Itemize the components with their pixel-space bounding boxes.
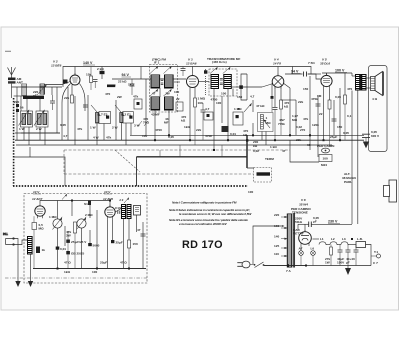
- wire: 140V B+ rail: [72, 67, 311, 75]
- IF transformer T1 box: [150, 58, 178, 113]
- labels mid front: [105, 80, 134, 100]
- svg-text:1 MΩ: 1 MΩ: [198, 97, 206, 101]
- rectifier tube V8: [299, 230, 312, 251]
- svg-text:35 DL6: 35 DL6: [320, 62, 330, 66]
- svg-text:0,05: 0,05: [60, 123, 66, 127]
- resistor R30 bleeder: [330, 245, 333, 266]
- label mains cap: [295, 216, 319, 224]
- svg-text:1M: 1M: [317, 94, 322, 98]
- label 94 V right: [291, 70, 301, 74]
- wire V2 connections: [44, 67, 88, 146]
- svg-text:L2: L2: [331, 237, 335, 241]
- antenna: [8, 67, 16, 78]
- svg-text:14 V: 14 V: [33, 190, 40, 194]
- svg-text:μF: μF: [346, 261, 350, 265]
- capacitor C2: [83, 105, 88, 107]
- capacitor C4: [130, 79, 135, 95]
- svg-text:1 MΩ: 1 MΩ: [49, 215, 57, 219]
- svg-text:47 Ω: 47 Ω: [120, 261, 127, 265]
- svg-text:600 V: 600 V: [371, 134, 380, 138]
- svg-text:47: 47: [137, 228, 141, 232]
- heater wiring marks: [138, 121, 222, 157]
- wire ferrite drops: [27, 99, 40, 111]
- svg-text:Nota I Commutatore raffigurat: Nota I Commutatore raffigurato in posizi…: [172, 201, 237, 205]
- svg-text:JW: JW: [165, 92, 170, 96]
- tube V4 det/AF: [272, 58, 284, 90]
- wire: bus line upper: [130, 134, 364, 136]
- svg-text:25μF: 25μF: [100, 261, 107, 265]
- antenna coupling block: [8, 77, 23, 85]
- svg-text:100: 100: [142, 134, 147, 138]
- svg-text:MΩ: MΩ: [266, 121, 272, 125]
- wire rectifier to filter: [313, 238, 320, 240]
- wire right risers: [310, 135, 318, 157]
- label speaker leads: [342, 172, 357, 184]
- svg-text:25 μF/25 V: 25 μF/25 V: [71, 240, 87, 244]
- labels chokes: [320, 237, 378, 265]
- capacitor C16 line end: [362, 134, 370, 141]
- capacitor C6 rail: [181, 67, 186, 77]
- oscillator coil box 1: [91, 105, 111, 124]
- svg-text:1 kΩ: 1 kΩ: [270, 145, 277, 149]
- notes text: [169, 201, 252, 227]
- clutter right section: [253, 94, 349, 153]
- svg-text:47k: 47k: [106, 136, 111, 140]
- dial lamp terminal 2: [311, 247, 316, 266]
- antenna coil L2: [37, 84, 46, 95]
- label 230 V: [328, 220, 340, 224]
- capacitor C30: [309, 222, 312, 228]
- T1 winding d: [164, 89, 174, 110]
- speaker LS1: [366, 72, 384, 102]
- svg-text:3 W: 3 W: [134, 124, 140, 128]
- svg-text:160: 160: [274, 224, 279, 228]
- svg-text:1: 1: [266, 116, 268, 120]
- svg-text:L1: L1: [320, 237, 324, 241]
- stray mark top-left: [5, 50, 11, 52]
- voltage selector taps: [281, 216, 287, 257]
- svg-text:L6: L6: [311, 247, 315, 251]
- svg-text:43 MF: 43 MF: [151, 113, 160, 117]
- wire: left corner link: [14, 157, 65, 186]
- svg-text:22: 22: [319, 112, 323, 116]
- svg-text:MΩ: MΩ: [292, 118, 298, 122]
- lamp ballast dashed box: [247, 168, 272, 183]
- wire: main AVC bus: [15, 139, 364, 141]
- phono input jack: [3, 232, 14, 245]
- filter capacitor Ca: [338, 245, 343, 266]
- svg-text:140 V: 140 V: [83, 61, 93, 65]
- pilot lamp assembly: [290, 140, 335, 167]
- svg-text:2 W: 2 W: [112, 126, 118, 130]
- resistor R11: [271, 96, 274, 112]
- svg-text:470: 470: [347, 87, 352, 91]
- filter capacitor Cc: [354, 245, 359, 266]
- phono out transformer: [115, 205, 131, 219]
- svg-text:T.1: T.1: [374, 250, 378, 254]
- svg-text:140: 140: [274, 235, 279, 239]
- svg-text:22k: 22k: [64, 96, 69, 100]
- capacitor C5 grid blob: [63, 80, 68, 84]
- svg-text:PER CAMBI: PER CAMBI: [317, 144, 335, 148]
- wire T2 drops: [214, 87, 241, 150]
- svg-text:A7: A7: [299, 247, 303, 251]
- svg-text:100: 100: [198, 101, 203, 105]
- resistor R1 grid: [64, 95, 74, 103]
- speaker cabinet box: [369, 66, 388, 152]
- resistor R7 cathode: [194, 97, 206, 146]
- svg-text:94 V: 94 V: [122, 73, 130, 77]
- svg-text:2W: 2W: [117, 95, 122, 99]
- svg-text:150V: 150V: [337, 261, 345, 265]
- svg-text:22 kΩ: 22 kΩ: [118, 80, 127, 84]
- ferrite rod: [23, 96, 44, 99]
- svg-text:12 BE6: 12 BE6: [51, 64, 62, 68]
- oscillator coil box 2: [115, 105, 133, 123]
- label V8: [299, 198, 308, 207]
- switch S2 mains: [254, 262, 265, 268]
- switch S1 mark: [62, 194, 91, 206]
- IF transformer T2 box: [206, 57, 241, 96]
- svg-text:5000: 5000: [93, 244, 100, 248]
- volume pot P2: [49, 215, 62, 230]
- svg-text:770k: 770k: [278, 122, 285, 126]
- svg-text:4 Ω: 4 Ω: [372, 97, 378, 101]
- T2 winding b: [223, 67, 232, 88]
- svg-text:1 MΩ: 1 MΩ: [234, 107, 242, 111]
- capacitor C24: [137, 228, 146, 236]
- resistor R10: [280, 100, 290, 135]
- svg-text:7 A: 7 A: [286, 269, 291, 273]
- antenna coil L1: [22, 84, 27, 96]
- svg-text:47k: 47k: [303, 117, 308, 121]
- svg-text:25μF: 25μF: [116, 241, 123, 245]
- bus power ground: [264, 265, 371, 267]
- value labels front end: [19, 90, 42, 131]
- volume pot P1: [258, 113, 274, 132]
- switch J2 mark and capacitor C10 phono: [115, 198, 129, 214]
- component clutter row 1: [133, 95, 243, 140]
- capacitor C21: [66, 231, 87, 269]
- ground right: [363, 142, 369, 149]
- T2 trimmer caps: [220, 79, 223, 85]
- labels filter caps: [325, 257, 355, 265]
- svg-text:110: 110: [274, 252, 279, 256]
- svg-text:2 kΩ: 2 kΩ: [97, 67, 104, 71]
- svg-text:14 F8: 14 F8: [273, 62, 281, 66]
- label 100 V: [335, 69, 347, 73]
- T1 winding a: [150, 66, 160, 88]
- svg-text:e la massa col voltmetro 20000: e la massa col voltmetro 20000 Ω/V: [179, 222, 228, 226]
- chassis ground hatched line horizontal: [13, 185, 248, 187]
- label 140 V: [83, 61, 95, 65]
- wire dash-dot below: [5, 277, 147, 279]
- capacitor C11: [273, 108, 278, 141]
- svg-text:100: 100: [216, 101, 221, 105]
- svg-text:4,7: 4,7: [63, 134, 68, 138]
- tube V6 phono out: [105, 205, 115, 219]
- svg-text:470: 470: [105, 92, 110, 96]
- ground arrow left 1: [15, 281, 20, 287]
- svg-text:22k: 22k: [298, 100, 303, 104]
- wire: heater bus thick: [137, 156, 248, 158]
- svg-text:J 2: J 2: [119, 198, 124, 202]
- svg-text:L.B.: L.B.: [357, 237, 363, 241]
- svg-text:47: 47: [152, 92, 156, 96]
- ground arrow power: [345, 266, 351, 276]
- svg-text:0,01: 0,01: [230, 132, 236, 136]
- node junction at V3 grid: [204, 70, 207, 73]
- wire detector to V4: [241, 74, 273, 100]
- svg-text:kΩ: kΩ: [284, 105, 289, 109]
- wire antenna feed: [12, 84, 63, 141]
- svg-text:4 W: 4 W: [93, 136, 99, 140]
- filter choke L3: [341, 242, 349, 245]
- wire V4 drops: [247, 67, 290, 136]
- wire jack to transformer: [14, 239, 31, 282]
- svg-text:22k: 22k: [196, 128, 201, 132]
- wire: audio link vertical: [136, 157, 138, 186]
- T2 labels: [211, 92, 227, 102]
- labels V4 area: [237, 95, 301, 195]
- svg-text:47k: 47k: [77, 127, 82, 131]
- svg-text:100: 100: [248, 190, 253, 194]
- svg-text:TERM: TERM: [265, 157, 274, 161]
- svg-text:125: 125: [274, 244, 279, 248]
- capacitor C3: [93, 80, 98, 89]
- capacitor C20: [56, 247, 67, 252]
- svg-text:MF: MF: [164, 121, 169, 125]
- T1 winding c: [150, 89, 160, 110]
- svg-text:M24: M24: [321, 163, 327, 167]
- capacitor C10 coupling: [304, 72, 307, 77]
- capacitor C23 electrolytic: [111, 240, 123, 245]
- tube V3 IF amp: [186, 58, 199, 90]
- svg-text:1W: 1W: [325, 261, 330, 265]
- dial lamp terminal 1: [299, 247, 304, 266]
- phono speaker jack: [134, 206, 141, 216]
- labels right cap: [371, 130, 380, 138]
- svg-text:47k: 47k: [133, 95, 138, 99]
- svg-text:RD 17O: RD 17O: [182, 239, 223, 251]
- labels under osc: [90, 124, 140, 140]
- resistor R20 grid V1: [32, 216, 44, 268]
- svg-text:7 E3: 7 E3: [101, 113, 108, 117]
- svg-text:47 kΩ: 47 kΩ: [256, 104, 265, 108]
- filter choke L1: [319, 242, 327, 245]
- wire osc drops: [97, 67, 146, 146]
- svg-text:4,7: 4,7: [250, 95, 255, 99]
- wire T1 drops: [155, 82, 180, 140]
- svg-text:MΩ: MΩ: [39, 227, 45, 231]
- svg-text:4,7: 4,7: [205, 107, 210, 111]
- svg-text:12 BA6: 12 BA6: [186, 62, 197, 66]
- svg-text:150: 150: [237, 95, 242, 99]
- svg-text:56: 56: [20, 106, 24, 110]
- T1 trimmer caps: [161, 79, 164, 85]
- label per cambio tensione: [291, 207, 311, 215]
- pot arrow diag: [244, 104, 251, 112]
- chassis ground hatched line vertical: [13, 98, 15, 186]
- svg-text:150: 150: [303, 87, 308, 91]
- wire V6 area: [108, 215, 144, 269]
- resistor R15: [344, 95, 347, 140]
- wire choke joins: [326, 244, 356, 246]
- svg-text:IF 1: IF 1: [154, 61, 160, 65]
- output transformer T3: [352, 74, 366, 91]
- svg-text:GB 25/25: GB 25/25: [71, 252, 85, 256]
- svg-text:C 7: C 7: [373, 261, 378, 265]
- svg-text:pF: pF: [33, 93, 37, 97]
- svg-text:0,1: 0,1: [347, 114, 352, 118]
- resistor R14: [328, 100, 331, 145]
- svg-text:7 B4: 7 B4: [308, 61, 315, 65]
- wire speaker leads down: [352, 91, 358, 225]
- tap labels: [274, 213, 279, 256]
- wire to right: [366, 245, 372, 266]
- svg-text:L3: L3: [342, 237, 346, 241]
- svg-text:S1: S1: [84, 202, 88, 206]
- wire: dashed line to lamp box: [64, 173, 254, 175]
- capacitor C0 padder pair: [16, 104, 19, 107]
- svg-text:V 8: V 8: [301, 198, 306, 202]
- svg-text:150: 150: [133, 242, 138, 246]
- svg-text:14 V: 14 V: [104, 190, 111, 194]
- capacitor C22: [88, 243, 99, 248]
- svg-text:100: 100: [174, 90, 179, 94]
- capacitor C7: [201, 103, 206, 140]
- svg-text:47 Ω: 47 Ω: [64, 261, 71, 265]
- svg-text:100 V: 100 V: [335, 69, 345, 73]
- wire mains to transformer: [253, 225, 306, 265]
- wire gang drops: [21, 87, 60, 145]
- svg-text:kΩ: kΩ: [181, 119, 186, 123]
- label 14V V1: [32, 190, 43, 201]
- svg-text:2 W: 2 W: [36, 127, 42, 131]
- ballast resistor block: [356, 242, 366, 248]
- T1 winding b: [164, 66, 174, 88]
- labels phono bottom: [64, 261, 127, 275]
- svg-text:230 V: 230 V: [328, 220, 338, 224]
- svg-text:35 W4: 35 W4: [299, 203, 308, 207]
- tube V5 output: [320, 58, 332, 89]
- tube V1 preamp: [35, 204, 45, 218]
- svg-text:25μF: 25μF: [330, 135, 337, 139]
- wire: thick vertical feed: [246, 135, 248, 168]
- svg-text:100: 100: [221, 92, 226, 96]
- wire: 100V output rail: [322, 72, 352, 74]
- svg-text:1kΩ: 1kΩ: [184, 125, 190, 129]
- resistor R3: [86, 67, 93, 91]
- filter capacitor Cb: [346, 245, 351, 266]
- wire pot drops: [253, 100, 296, 145]
- T2 winding a: [210, 67, 219, 88]
- svg-text:47: 47: [282, 149, 286, 153]
- power transformer winding: [286, 213, 295, 273]
- tone pot P3: [77, 213, 94, 230]
- svg-text:1kΩ: 1kΩ: [64, 270, 70, 274]
- AGC arrow bar: [107, 85, 116, 88]
- svg-text:RETTIF: RETTIF: [293, 232, 304, 236]
- svg-text:(465 Kc/s): (465 Kc/s): [212, 60, 227, 64]
- phono amplifier dashed enclosure: [24, 194, 147, 284]
- resistor R2 screen: [97, 67, 105, 80]
- svg-text:0,01: 0,01: [60, 247, 66, 251]
- svg-text:270: 270: [300, 128, 305, 132]
- svg-text:P.U.: P.U.: [3, 232, 8, 236]
- tuning gang section 2: [34, 110, 48, 127]
- svg-text:100: 100: [323, 157, 328, 161]
- svg-text:0,02: 0,02: [253, 149, 259, 153]
- wire 230V line: [298, 224, 352, 231]
- svg-text:470k: 470k: [205, 134, 212, 138]
- svg-text:50Hz: 50Hz: [295, 220, 303, 224]
- svg-text:0,05: 0,05: [343, 131, 349, 135]
- tube V2 converter: [51, 60, 80, 86]
- wire V3: [190, 67, 209, 141]
- label 94 V: [122, 73, 132, 77]
- filter choke L2: [330, 242, 338, 245]
- wire: FM dashed line horizontal: [64, 149, 290, 151]
- svg-text:2 MΩ: 2 MΩ: [85, 213, 93, 217]
- label rectifier: [293, 228, 304, 236]
- resistor R22: [36, 247, 45, 254]
- svg-text:220: 220: [274, 213, 279, 217]
- bus phono ground: [33, 268, 146, 270]
- resistor R21: [66, 222, 77, 269]
- svg-text:le resistenze sono in Ω; W ove: le resistenze sono in Ω; W ove non diffe…: [179, 212, 252, 216]
- svg-text:4700: 4700: [155, 128, 162, 132]
- capacitor C14: [316, 104, 321, 106]
- labels V5 area: [303, 87, 352, 129]
- svg-text:150: 150: [337, 125, 342, 129]
- label 14V V6: [103, 190, 113, 201]
- svg-text:3W: 3W: [66, 234, 71, 238]
- svg-text:94 V: 94 V: [291, 70, 299, 74]
- svg-text:1k: 1k: [42, 248, 46, 252]
- svg-text:μF: μF: [313, 220, 317, 224]
- resistor R24: [128, 240, 138, 269]
- mains plug: [237, 261, 253, 268]
- capacitor C15: [332, 119, 337, 121]
- svg-text:70Ω: 70Ω: [143, 121, 149, 125]
- svg-text:kΩ: kΩ: [253, 144, 258, 148]
- tuning gang section 1: [19, 110, 33, 127]
- wire pots down: [58, 210, 98, 269]
- wire: second bus: [16, 144, 332, 146]
- svg-text:100: 100: [92, 270, 97, 274]
- svg-text:22k: 22k: [296, 138, 301, 142]
- external speaker jack: [384, 180, 397, 202]
- svg-text:PARL: PARL: [344, 180, 352, 184]
- svg-text:TENSIONE: TENSIONE: [292, 211, 308, 215]
- svg-text:kΩ: kΩ: [243, 133, 248, 137]
- T1 labels: [151, 92, 170, 117]
- capacitor C1 trimmer: [50, 95, 55, 110]
- svg-text:68: 68: [307, 143, 311, 147]
- svg-text:220: 220: [14, 100, 19, 104]
- phono input transformer: [28, 237, 33, 255]
- svg-text:0,05: 0,05: [335, 95, 341, 99]
- node junction detector: [239, 85, 243, 89]
- svg-text:120k: 120k: [312, 123, 319, 127]
- ground arrow left 2: [28, 281, 33, 287]
- terminal T1: [371, 250, 381, 258]
- wire: 94V detector line: [285, 73, 303, 75]
- svg-text:2 E1: 2 E1: [125, 113, 132, 117]
- wire: 94V screen rail left: [112, 78, 186, 80]
- svg-text:22: 22: [176, 97, 180, 101]
